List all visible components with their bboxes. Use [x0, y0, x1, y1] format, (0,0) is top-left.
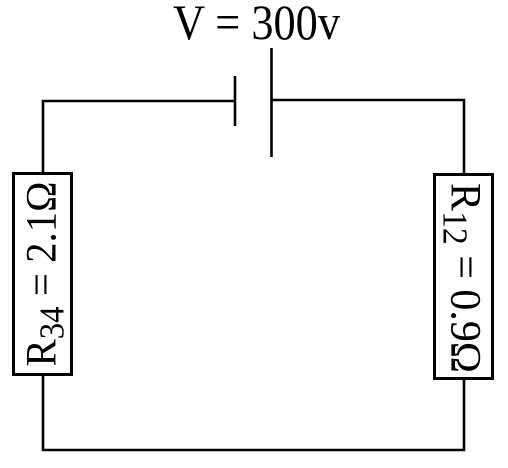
- resistor R12 box: [435, 175, 493, 379]
- svg-text:V = 300v: V = 300v: [173, 0, 340, 50]
- wire left vertical lower + bottom horizontal + right vertical lower: [43, 374, 464, 450]
- wire top-left horizontal + left vertical upper: [43, 101, 235, 173]
- battery BT1 short plate (negative): [234, 76, 237, 126]
- resistor R34 box: [14, 174, 72, 375]
- battery BT1 long plate (positive): [270, 48, 273, 157]
- wire top-right horizontal + right vertical upper: [272, 100, 465, 174]
